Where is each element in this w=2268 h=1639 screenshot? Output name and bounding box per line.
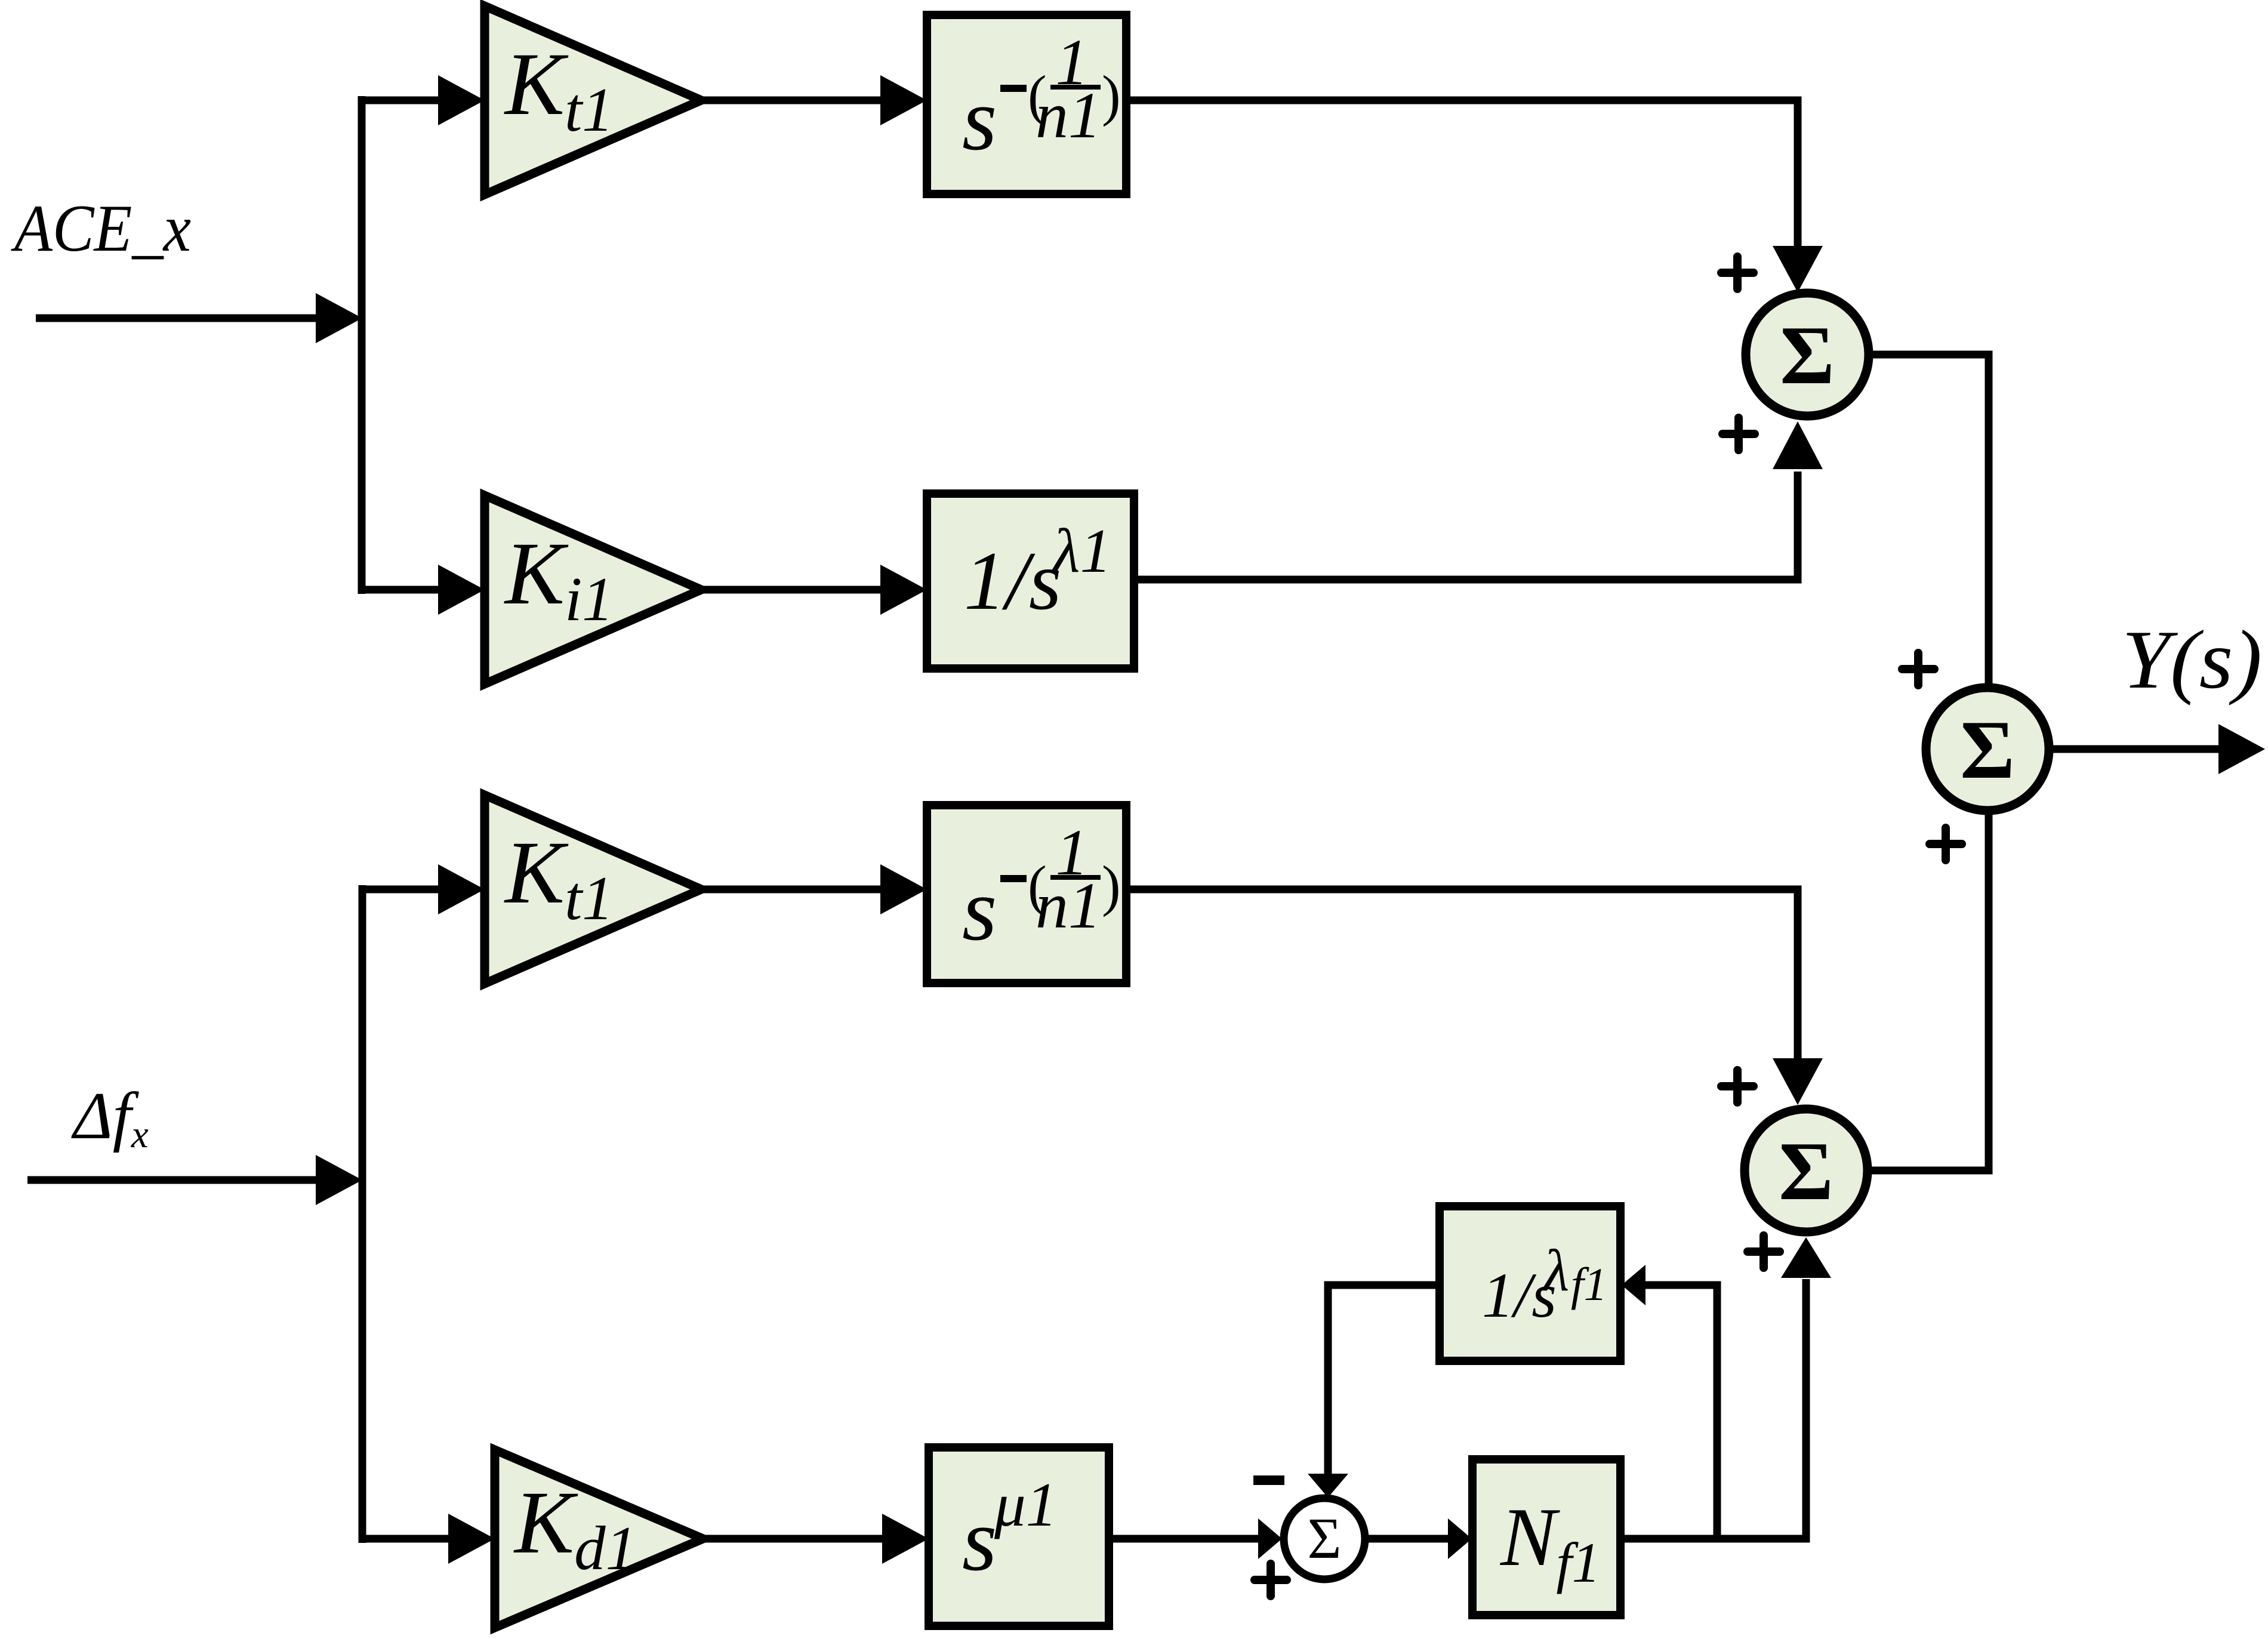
gain Kd1 (495, 1450, 703, 1628)
summing junction sum2 output (1926, 688, 2049, 811)
svg-text:f1: f1 (1571, 1258, 1607, 1310)
wire sum2 output (2049, 745, 2220, 753)
summing junction sum1 (1746, 293, 1869, 416)
wire Kd1 to block s^mu1 (703, 1535, 883, 1543)
block 1/s^lambda_f1 (1440, 1206, 1620, 1361)
wire Ki1 to block 1/s^l1 (701, 586, 882, 594)
wire to gain Kt1 top (358, 97, 439, 104)
svg-text:n1: n1 (1036, 869, 1101, 942)
block s^mu1 (929, 1447, 1109, 1626)
wire Kt1 lower to block (701, 886, 882, 894)
svg-text:Σ: Σ (1779, 1125, 1833, 1218)
svg-text:λ1: λ1 (1051, 516, 1111, 586)
plus sum3 bottom (1748, 1236, 1780, 1268)
gain Ki1 (485, 495, 701, 684)
svg-text:λ: λ (1542, 1237, 1569, 1304)
plus sum3 top (1721, 1070, 1754, 1102)
wire s^mu1 to small sum (1109, 1535, 1258, 1543)
wire to gain Kd1 (359, 1535, 448, 1543)
wire ACE_x input (36, 315, 318, 322)
svg-text:ACE_x: ACE_x (10, 192, 191, 266)
minus small sum (1253, 1475, 1284, 1485)
svg-text:Σ: Σ (1780, 309, 1835, 402)
svg-text:n1: n1 (1036, 79, 1101, 152)
plus small sum (1255, 1564, 1287, 1596)
wire block to sum1 bottom (1134, 472, 1798, 580)
svg-text:Σ: Σ (1307, 1506, 1341, 1571)
wire feedback junction up to block 1/s^lf1 input (1645, 1285, 1717, 1539)
wire Kt1 to block s^-(1/n1) (701, 97, 882, 104)
gain Kt1 (top) (485, 6, 701, 195)
gain Kt1 (lower) (485, 795, 701, 984)
block 1/s^lambda1 (927, 494, 1134, 668)
wire sum3 output to sum2 (1868, 814, 1989, 1170)
wire junction vertical Delta f (359, 885, 366, 1543)
svg-text:s: s (962, 70, 997, 169)
block Nf1 (1472, 1459, 1620, 1615)
svg-text:Σ: Σ (1960, 704, 2015, 796)
svg-text:): ) (1102, 64, 1121, 127)
wire sum1 to sum2 (1869, 355, 1989, 685)
wire Delta f input (27, 1176, 318, 1184)
svg-text:Y(s): Y(s) (2122, 614, 2262, 706)
wire block lower to sum3 (1126, 889, 1798, 1062)
plus sum1 bottom (1722, 418, 1755, 450)
block s^-(1/n1) top (927, 15, 1126, 194)
svg-text:s: s (962, 1490, 997, 1589)
wire block 1/s^lf1 output down to small sum (1328, 1285, 1440, 1475)
wire to gain Ki1 (358, 586, 439, 594)
svg-text:μ1: μ1 (994, 1469, 1057, 1539)
plus sum1 top (1721, 257, 1754, 289)
wire small sum to Nf1 (1365, 1535, 1448, 1543)
summing junction sum3 (1745, 1109, 1868, 1232)
svg-text:): ) (1102, 854, 1121, 917)
plus sum2 top (1902, 653, 1934, 685)
summing junction small sum (1284, 1498, 1365, 1579)
wire Nf1 output to sum3 (1619, 1279, 1806, 1539)
wire to gain Kt1 lower (359, 886, 439, 894)
wire block to sum1 (1126, 100, 1798, 247)
svg-text:s: s (962, 860, 997, 959)
svg-text:1/s: 1/s (964, 535, 1061, 627)
wire junction vertical ACE (358, 96, 366, 594)
block s^-(1/n1) lower (927, 805, 1126, 983)
plus sum2 bottom (1930, 828, 1962, 860)
svg-text:Δfx: Δfx (71, 1079, 149, 1156)
